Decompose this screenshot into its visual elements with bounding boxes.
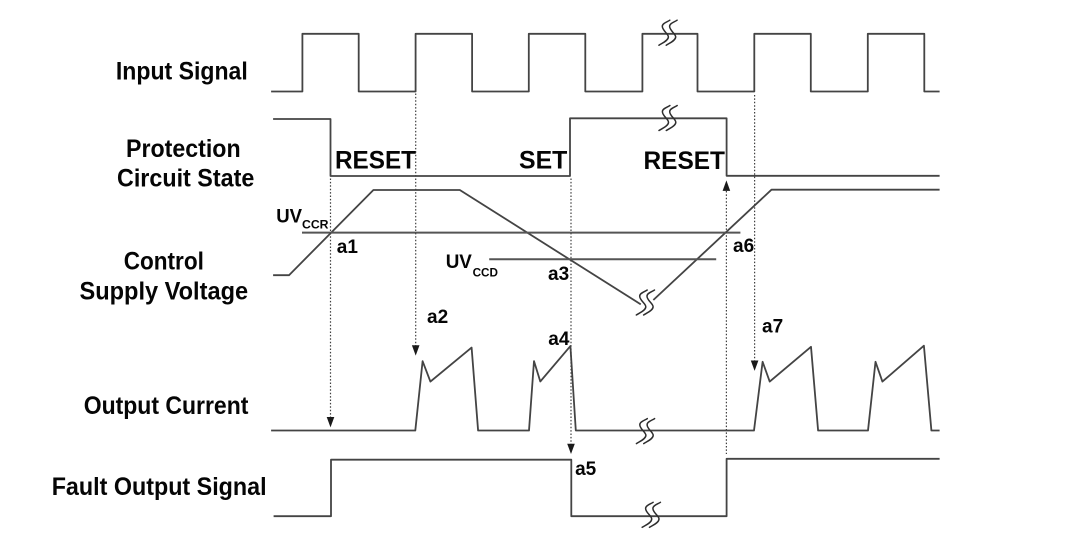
svg-text:CCD: CCD [473,267,498,279]
svg-text:Circuit State: Circuit State [117,165,254,193]
node break symbol output current [636,419,654,444]
wire dotted marker line a6 [725,191,727,454]
svg-text:UV: UV [446,252,473,273]
wire dotted marker line a7 [754,95,756,361]
svg-text:Fault Output Signal: Fault Output Signal [52,473,267,501]
wire fault output signal trace [275,459,939,516]
svg-text:a6: a6 [733,236,754,257]
node break symbol protection state [659,106,677,131]
svg-text:RESET: RESET [335,147,416,175]
svg-text:RESET: RESET [644,147,726,175]
wire dotted marker line a2 [415,94,417,346]
wire control supply voltage trace falling [274,190,640,304]
node break symbol input signal [659,20,677,45]
node arrow a7 down [751,361,759,371]
node arrow a6 up [723,180,731,191]
node arrow a2 down [412,345,420,355]
node break symbol supply voltage [636,290,654,315]
wire protection circuit state trace [274,118,939,176]
wire dotted marker line a4-a5 [570,179,572,445]
wire dotted marker line a1 [330,179,332,418]
svg-text:a5: a5 [575,459,597,480]
svg-text:Protection: Protection [126,135,241,163]
svg-text:Input Signal: Input Signal [116,57,248,85]
wire output current trace [272,346,939,431]
svg-text:Output Current: Output Current [84,392,249,420]
svg-text:a1: a1 [337,237,359,258]
node UVCCD threshold line [489,258,716,260]
svg-text:Supply Voltage: Supply Voltage [80,278,249,306]
svg-text:a7: a7 [762,317,783,338]
node UVCCR threshold line [302,232,740,234]
wire control supply voltage trace rising [654,190,939,300]
node break symbol fault output [642,502,660,527]
svg-text:a4: a4 [548,329,570,350]
wire input signal trace [272,34,939,92]
node arrow a1 down [327,417,335,427]
svg-text:a2: a2 [427,307,448,328]
svg-text:Control: Control [124,248,204,276]
svg-text:CCR: CCR [302,220,329,232]
svg-text:UV: UV [276,206,302,227]
svg-text:a3: a3 [548,264,569,285]
node arrow a5 down [567,444,575,454]
svg-text:SET: SET [519,147,567,175]
